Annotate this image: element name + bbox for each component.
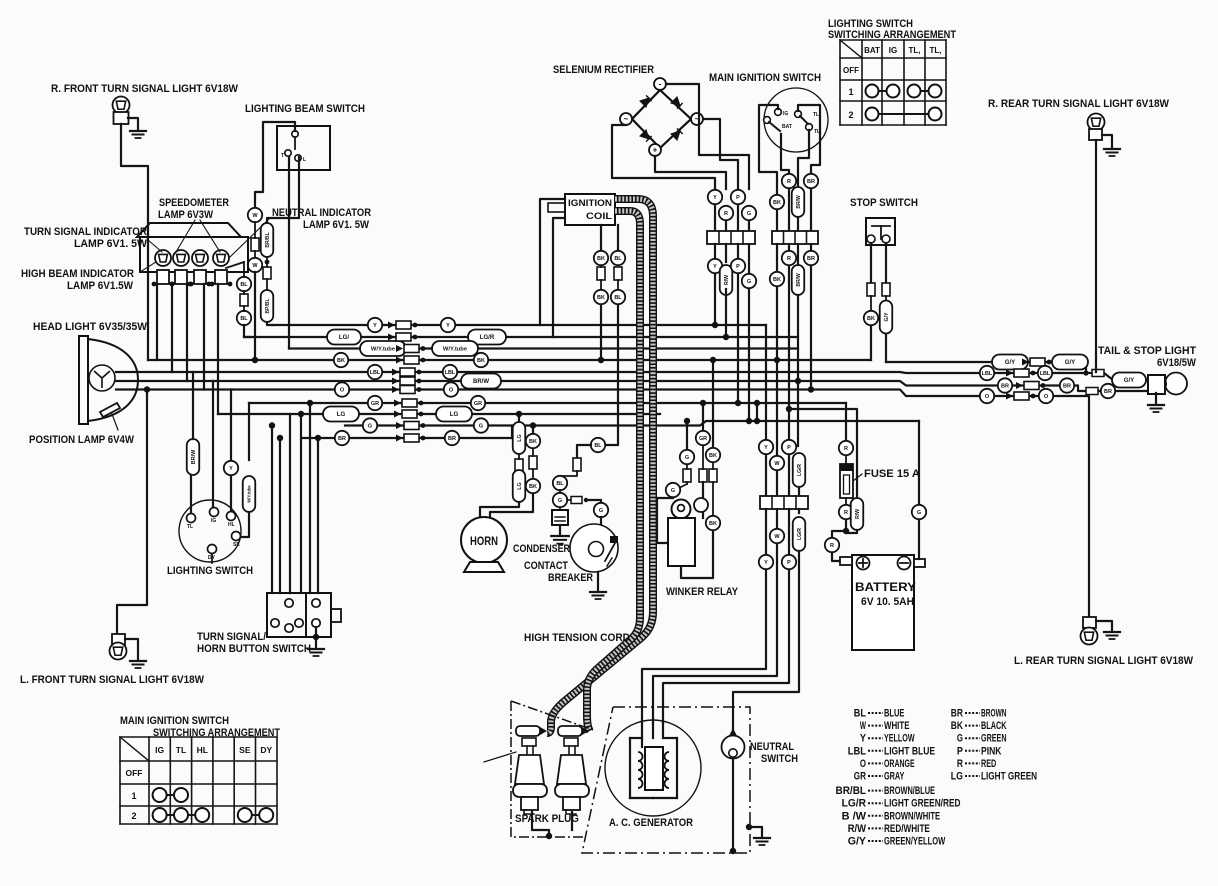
svg-text:LG: LG — [450, 411, 459, 418]
svg-text:P: P — [787, 445, 791, 451]
svg-text:STOP SWITCH: STOP SWITCH — [850, 197, 918, 209]
svg-text:SE: SE — [239, 745, 251, 755]
svg-text:LG/: LG/ — [339, 334, 349, 341]
svg-text:WINKER RELAY: WINKER RELAY — [666, 586, 738, 598]
svg-text:BR: BR — [807, 179, 815, 185]
svg-text:BK: BK — [529, 484, 537, 490]
svg-text:1: 1 — [131, 791, 136, 801]
svg-text:LG/R: LG/R — [797, 464, 803, 476]
svg-text:G/Y: G/Y — [884, 312, 890, 321]
svg-text:P: P — [736, 264, 740, 270]
svg-text:TURN SIGNAL INDICATOR: TURN SIGNAL INDICATOR — [24, 226, 147, 238]
svg-text:P: P — [787, 560, 791, 566]
svg-text:BK: BK — [773, 200, 781, 206]
svg-text:LBL: LBL — [982, 371, 993, 377]
svg-text:LG/R: LG/R — [480, 334, 495, 341]
svg-text:POSITION LAMP 6V4W: POSITION LAMP 6V4W — [29, 434, 134, 446]
svg-text:IG: IG — [155, 745, 164, 755]
svg-text:ORANGE: ORANGE — [884, 758, 915, 770]
svg-text:LBL: LBL — [370, 370, 381, 376]
svg-text:BR/W: BR/W — [191, 449, 197, 464]
svg-text:BREAKER: BREAKER — [548, 572, 593, 584]
svg-text:LG: LG — [951, 771, 963, 783]
svg-text:BR: BR — [951, 708, 963, 720]
svg-text:BR: BR — [807, 256, 815, 262]
svg-text:WHITE: WHITE — [884, 720, 910, 732]
svg-text:LG/R: LG/R — [797, 528, 803, 540]
svg-text:TL,: TL, — [930, 46, 942, 55]
svg-text:BK: BK — [709, 453, 717, 459]
svg-text:G: G — [368, 423, 372, 429]
svg-text:2: 2 — [131, 811, 136, 821]
svg-text:OFF: OFF — [843, 66, 859, 75]
svg-text:HL: HL — [228, 522, 235, 528]
svg-text:TAIL & STOP LIGHT: TAIL & STOP LIGHT — [1098, 345, 1196, 357]
svg-text:MAIN IGNITION SWITCH: MAIN IGNITION SWITCH — [709, 72, 821, 84]
svg-text:R. FRONT TURN SIGNAL LIGHT 6V1: R. FRONT TURN SIGNAL LIGHT 6V18W — [51, 83, 238, 95]
svg-text:LIGHTING BEAM SWITCH: LIGHTING BEAM SWITCH — [245, 103, 365, 115]
svg-text:LG: LG — [517, 482, 523, 490]
svg-text:DY: DY — [260, 745, 272, 755]
svg-text:SE: SE — [233, 542, 240, 548]
svg-text:LBL: LBL — [848, 745, 867, 757]
svg-text:G: G — [479, 423, 483, 429]
svg-text:LBL: LBL — [445, 370, 456, 376]
svg-text:G: G — [558, 498, 562, 504]
svg-text:TURN SIGNAL/: TURN SIGNAL/ — [197, 631, 266, 643]
svg-text:LAMP 6V1.5W: LAMP 6V1.5W — [67, 280, 133, 292]
svg-text:GRAY: GRAY — [884, 771, 905, 783]
svg-text:PINK: PINK — [981, 745, 1001, 757]
svg-text:G: G — [599, 508, 603, 514]
svg-text:R: R — [844, 446, 848, 452]
svg-text:6V 10. 5AH: 6V 10. 5AH — [861, 596, 914, 608]
svg-text:HEAD LIGHT 6V35/35W: HEAD LIGHT 6V35/35W — [33, 321, 147, 333]
svg-text:BR: BR — [1104, 389, 1112, 395]
svg-text:W/Y.tube: W/Y.tube — [247, 485, 252, 503]
svg-text:YELLOW: YELLOW — [884, 733, 915, 745]
svg-text:G: G — [917, 510, 921, 516]
svg-text:BL: BL — [240, 316, 248, 322]
svg-text:NEUTRAL INDICATOR: NEUTRAL INDICATOR — [272, 207, 371, 219]
svg-text:BL: BL — [556, 481, 564, 487]
svg-text:BK: BK — [951, 720, 963, 732]
svg-text:MAIN IGNITION SWITCH: MAIN IGNITION SWITCH — [120, 715, 229, 727]
svg-text:O: O — [985, 394, 990, 400]
svg-text:IG: IG — [889, 46, 897, 55]
svg-text:R: R — [724, 211, 728, 217]
svg-text:R: R — [787, 179, 791, 185]
svg-text:LIGHT GREEN: LIGHT GREEN — [981, 771, 1037, 783]
svg-text:HORN: HORN — [470, 536, 498, 548]
svg-text:W/Y.tube: W/Y.tube — [371, 347, 396, 353]
svg-text:BROWN/WHITE: BROWN/WHITE — [884, 810, 940, 822]
svg-text:TL,: TL, — [909, 46, 921, 55]
svg-text:SWITCH: SWITCH — [761, 753, 798, 765]
svg-text:L. REAR TURN SIGNAL LIGHT 6V18: L. REAR TURN SIGNAL LIGHT 6V18W — [1014, 655, 1193, 667]
svg-text:O: O — [449, 387, 454, 393]
svg-text:O: O — [340, 387, 345, 393]
svg-text:T: T — [281, 153, 284, 159]
svg-text:LIGHT BLUE: LIGHT BLUE — [884, 745, 935, 757]
svg-text:Y: Y — [713, 264, 717, 270]
svg-text:BL: BL — [240, 282, 248, 288]
svg-text:Y: Y — [373, 323, 377, 329]
svg-text:HORN BUTTON SWITCH: HORN BUTTON SWITCH — [197, 643, 311, 655]
svg-text:BL: BL — [614, 295, 622, 301]
svg-text:L: L — [303, 157, 306, 163]
svg-text:BK: BK — [477, 358, 485, 364]
svg-text:W: W — [252, 263, 258, 269]
svg-text:R/W: R/W — [724, 275, 730, 285]
svg-text:P: P — [736, 195, 740, 201]
svg-text:LAMP 6V3W: LAMP 6V3W — [158, 209, 213, 221]
svg-text:A. C. GENERATOR: A. C. GENERATOR — [609, 817, 693, 829]
svg-text:BR: BR — [1063, 383, 1071, 389]
svg-text:Y: Y — [764, 560, 768, 566]
svg-text:SPEEDOMETER: SPEEDOMETER — [159, 197, 229, 209]
svg-text:OFF: OFF — [126, 768, 143, 778]
svg-text:G: G — [747, 279, 751, 285]
svg-text:R. REAR TURN SIGNAL LIGHT 6V18: R. REAR TURN SIGNAL LIGHT 6V18W — [988, 98, 1169, 110]
svg-text:BAT: BAT — [864, 46, 880, 55]
svg-text:G/Y: G/Y — [848, 836, 867, 848]
svg-text:LG/R: LG/R — [842, 798, 866, 810]
svg-text:2: 2 — [848, 110, 853, 120]
svg-text:B /W: B /W — [842, 810, 867, 822]
svg-text:O: O — [860, 758, 866, 770]
svg-text:NEUTRAL: NEUTRAL — [750, 741, 794, 753]
svg-text:TL: TL — [187, 524, 193, 530]
svg-text:GREEN/YELLOW: GREEN/YELLOW — [884, 836, 946, 848]
svg-text:LAMP 6V1. 5W: LAMP 6V1. 5W — [74, 238, 147, 250]
svg-text:R: R — [787, 256, 791, 262]
svg-text:GREEN: GREEN — [981, 733, 1007, 745]
svg-text:BK: BK — [597, 295, 605, 301]
svg-text:BLACK: BLACK — [981, 720, 1007, 732]
svg-text:R: R — [830, 543, 834, 549]
svg-text:G/Y: G/Y — [1124, 377, 1135, 384]
svg-text:~: ~ — [624, 115, 629, 124]
svg-text:HL: HL — [197, 745, 208, 755]
svg-text:1: 1 — [848, 87, 853, 97]
svg-text:BL: BL — [854, 708, 866, 720]
svg-text:COIL: COIL — [586, 211, 612, 222]
svg-text:LG: LG — [517, 434, 523, 442]
svg-text:HIGH TENSION CORD: HIGH TENSION CORD — [524, 632, 630, 644]
svg-text:G: G — [671, 488, 675, 494]
svg-text:BL: BL — [614, 256, 622, 262]
svg-text:O: O — [1044, 394, 1049, 400]
svg-text:W: W — [860, 720, 866, 732]
svg-text:BK: BK — [773, 277, 781, 283]
svg-text:TL: TL — [176, 745, 186, 755]
svg-text:BK: BK — [709, 521, 717, 527]
svg-text:FUSE 15 A: FUSE 15 A — [864, 468, 920, 480]
svg-text:BK: BK — [337, 358, 345, 364]
svg-text:BP/BL: BP/BL — [265, 299, 271, 314]
svg-text:BLUE: BLUE — [884, 708, 904, 720]
svg-text:G: G — [685, 455, 689, 461]
svg-text:LAMP 6V1. 5W: LAMP 6V1. 5W — [303, 219, 369, 231]
svg-text:LIGHTING SWITCH: LIGHTING SWITCH — [167, 565, 253, 577]
svg-text:W: W — [774, 534, 780, 540]
svg-text:L. FRONT TURN SIGNAL LIGHT 6V1: L. FRONT TURN SIGNAL LIGHT 6V18W — [20, 674, 204, 686]
svg-text:CONTACT: CONTACT — [524, 560, 568, 572]
svg-text:BR: BR — [1001, 383, 1009, 389]
svg-text:P: P — [957, 745, 963, 757]
svg-text:RED: RED — [981, 758, 996, 770]
svg-text:R/W: R/W — [848, 823, 867, 835]
svg-text:CONDENSER: CONDENSER — [513, 543, 570, 555]
svg-text:HIGH BEAM INDICATOR: HIGH BEAM INDICATOR — [21, 268, 134, 280]
svg-text:-: - — [659, 80, 662, 89]
svg-text:GR: GR — [474, 401, 482, 407]
svg-text:R: R — [844, 510, 848, 516]
svg-text:Y: Y — [229, 466, 233, 472]
svg-text:GR: GR — [699, 436, 707, 442]
svg-text:G/Y: G/Y — [1065, 359, 1076, 366]
svg-text:BAT: BAT — [782, 124, 792, 130]
svg-text:BROWN/BLUE: BROWN/BLUE — [884, 785, 935, 797]
svg-text:BK: BK — [867, 316, 875, 322]
svg-text:G/Y: G/Y — [1005, 359, 1016, 366]
svg-text:IGNITION: IGNITION — [568, 198, 612, 209]
svg-text:GR: GR — [371, 401, 379, 407]
svg-text:BR: BR — [338, 436, 346, 442]
svg-text:BR/W: BR/W — [796, 195, 802, 209]
svg-text:IG: IG — [211, 518, 216, 524]
svg-text:LG: LG — [337, 411, 346, 418]
svg-text:BR/W: BR/W — [796, 273, 802, 287]
svg-text:BK: BK — [597, 256, 605, 262]
svg-text:SPARK PLUG: SPARK PLUG — [515, 813, 579, 825]
svg-text:BROWN: BROWN — [981, 708, 1007, 720]
svg-text:R: R — [957, 758, 963, 770]
svg-text:SELENIUM RECTIFIER: SELENIUM RECTIFIER — [553, 64, 654, 76]
svg-text:G: G — [957, 733, 963, 745]
svg-text:W: W — [774, 461, 780, 467]
svg-text:BK: BK — [529, 439, 537, 445]
svg-text:LIGHT GREEN/RED: LIGHT GREEN/RED — [884, 798, 961, 810]
svg-text:R/W: R/W — [855, 509, 861, 519]
svg-text:BR/W: BR/W — [473, 379, 489, 385]
svg-text:Y: Y — [446, 323, 450, 329]
svg-text:BR/BL: BR/BL — [836, 785, 867, 797]
svg-text:6V18/5W: 6V18/5W — [1157, 357, 1196, 369]
svg-text:BL: BL — [594, 443, 602, 449]
svg-text:IG: IG — [783, 111, 788, 117]
svg-text:GR: GR — [854, 771, 866, 783]
svg-text:W: W — [252, 213, 258, 219]
svg-text:BATTERY: BATTERY — [855, 582, 916, 594]
svg-text:W/Y.tube: W/Y.tube — [443, 347, 468, 353]
svg-text:LBL: LBL — [1040, 371, 1051, 377]
svg-text:+: + — [653, 146, 658, 155]
svg-text:BR/BL: BR/BL — [265, 232, 271, 247]
svg-text:BR: BR — [448, 436, 456, 442]
svg-text:Y: Y — [860, 733, 867, 745]
svg-text:G: G — [747, 211, 751, 217]
svg-text:RED/WHITE: RED/WHITE — [884, 823, 930, 835]
svg-text:Y: Y — [764, 445, 768, 451]
svg-text:Y: Y — [713, 195, 717, 201]
